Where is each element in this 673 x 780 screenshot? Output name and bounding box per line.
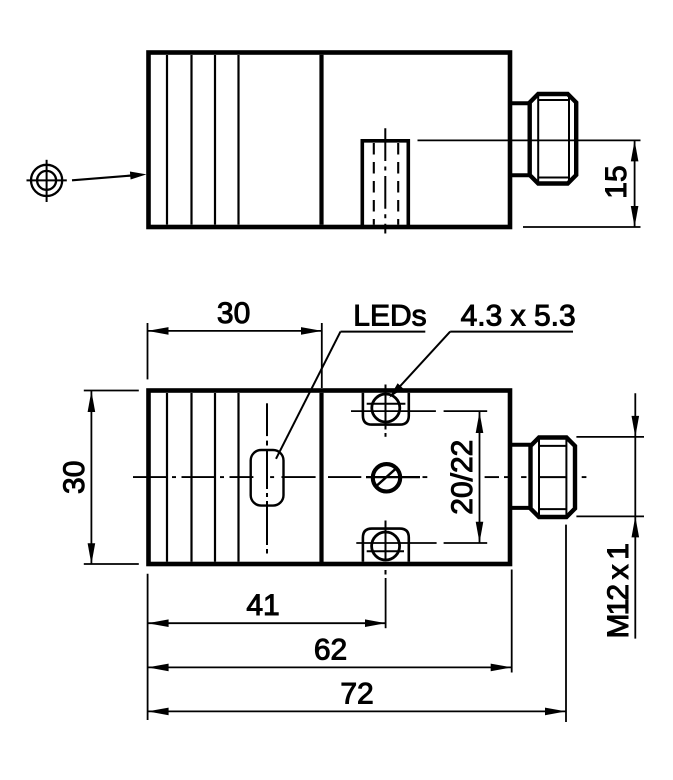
- svg-text:20/22: 20/22: [446, 440, 479, 515]
- svg-text:15: 15: [600, 165, 633, 198]
- svg-text:30: 30: [58, 461, 91, 494]
- svg-text:30: 30: [217, 297, 250, 330]
- svg-text:41: 41: [246, 589, 279, 622]
- svg-text:M12 x 1: M12 x 1: [602, 543, 635, 638]
- svg-text:72: 72: [340, 677, 373, 710]
- svg-text:62: 62: [314, 633, 347, 666]
- svg-text:4.3 x 5.3: 4.3 x 5.3: [461, 299, 576, 332]
- svg-text:LEDs: LEDs: [353, 299, 426, 332]
